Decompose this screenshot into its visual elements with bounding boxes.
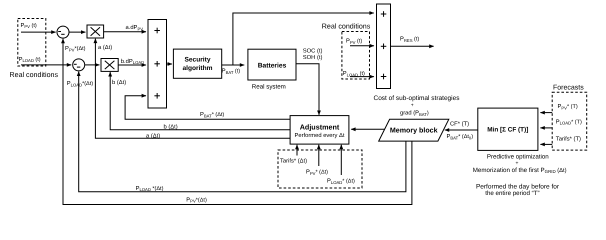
svg-text:PLOAD (t): PLOAD (t) (19, 57, 41, 63)
wire P_PV(t) to sum junction S1 (21, 31, 56, 33)
svg-text:grad (PBAT): grad (PBAT) (400, 110, 429, 117)
wire Tarifs* up to Adjustment (296, 145, 298, 156)
svg-text:Performed every Δt: Performed every Δt (295, 132, 345, 139)
block: Security algorithm (173, 49, 221, 78)
svg-text:a.dPPV: a.dPPV (126, 24, 144, 31)
wire M1 to summing block SUM1 (104, 31, 146, 33)
svg-text:Memory block: Memory block (390, 126, 438, 134)
svg-text:CF* (T): CF* (T) (450, 121, 469, 128)
dashed box: real conditions (right) (342, 32, 370, 80)
svg-text:PLOAD* (Δt): PLOAD* (Δt) (327, 179, 355, 185)
wire P_RES output (391, 45, 434, 47)
wire memory block down to S2 (P_LOAD*) (79, 72, 406, 192)
wire S1 to multiplier M1 (69, 31, 85, 33)
svg-text:PLOAD *(Δt): PLOAD *(Δt) (136, 186, 164, 192)
svg-text:+: + (411, 103, 414, 109)
sum junction S2 (73, 59, 85, 71)
block: Min [S CF (T)] (478, 108, 538, 150)
svg-text:PPV* (T): PPV* (T) (558, 104, 578, 110)
svg-text:Cost of sub-optimal strategies: Cost of sub-optimal strategies (374, 95, 461, 102)
svg-text:PLOAD* (T): PLOAD* (T) (556, 120, 582, 126)
wire P_PV*(T) to Min (540, 112, 552, 114)
wire S2 to multiplier M2 (85, 64, 100, 66)
wire P_PV(t) to cost block SUM2 (350, 45, 374, 47)
dashed box: real conditions (left) (18, 19, 46, 67)
svg-text:PBAT (t): PBAT (t) (222, 69, 241, 75)
svg-text:PLOAD*(Δt): PLOAD*(Δt) (67, 81, 93, 87)
svg-text:Batteries: Batteries (258, 62, 287, 69)
wire Adjustment to M1 (a) (95, 39, 290, 139)
svg-text:Tarifs* (Δt): Tarifs* (Δt) (280, 158, 307, 165)
svg-text:PPV (t): PPV (t) (346, 39, 362, 45)
cost summing block SUM2 (377, 4, 391, 89)
svg-text:Real conditions: Real conditions (322, 23, 371, 31)
wire P_PV* up to Adjustment (318, 145, 320, 166)
svg-text:b (Δt): b (Δt) (112, 79, 126, 86)
svg-text:PPV*(Δt): PPV*(Δt) (65, 46, 86, 52)
svg-text:Tarifs* (T): Tarifs* (T) (556, 136, 581, 143)
svg-text:a (Δt): a (Δt) (146, 133, 160, 140)
wire security to Batteries, P_BAT(t) (222, 64, 245, 66)
wire P_LOAD(t) to cost block SUM2 (350, 76, 374, 78)
svg-text:PBAT* (Δt0): PBAT* (Δt0) (447, 134, 474, 140)
svg-text:PRES (t): PRES (t) (400, 37, 419, 43)
svg-text:b (Δt): b (Δt) (164, 124, 178, 131)
svg-text:PPV*(Δt): PPV*(Δt) (186, 198, 207, 204)
svg-text:b.dPLOAD: b.dPLOAD (121, 58, 144, 65)
svg-text:SOC (t): SOC (t) (303, 48, 323, 55)
svg-text:Adjustment: Adjustment (300, 122, 340, 131)
multiplier M1 (87, 25, 104, 38)
svg-text:Predictive optimization: Predictive optimization (487, 154, 549, 161)
svg-text:+: + (515, 161, 518, 167)
svg-text:PPV (t): PPV (t) (21, 23, 37, 29)
svg-text:Forecasts: Forecasts (553, 85, 584, 92)
wire SUM1 to security algorithm (167, 63, 173, 65)
wire P_LOAD* up to Adjustment (340, 145, 342, 175)
wire Tarifs*(T) to Min (540, 143, 552, 145)
svg-text:the entire period “T”: the entire period “T” (485, 190, 539, 197)
svg-text:a (Δt): a (Δt) (98, 44, 112, 51)
svg-text:Memorization of the first PGRI: Memorization of the first PGRID (Δt) (473, 167, 567, 174)
wire M2 to summing block SUM1 (118, 64, 146, 66)
wire Adjustment to M2 (b) (110, 72, 290, 130)
wire memory block down to S1 (P_PV*) (63, 39, 412, 205)
svg-text:PBAT* (Δt): PBAT* (Δt) (200, 112, 224, 118)
dashed box: adjustment inputs (278, 150, 362, 188)
svg-text:Min [Σ CF (T)]: Min [Σ CF (T)] (487, 127, 528, 134)
dashed box: forecasts (552, 92, 587, 150)
wire Batteries SOC/SOH to Adjustment (296, 64, 319, 115)
wire P_LOAD(t) to sum junction S2 (21, 64, 71, 66)
svg-text:algorithm: algorithm (182, 65, 212, 72)
wire P_BAT(t) tap up to cost block SUM2 (233, 13, 374, 65)
svg-text:PPV* (Δt): PPV* (Δt) (306, 170, 328, 176)
summing block SUM1 (148, 20, 167, 109)
wire Adjustment to SUM1 (P_BAT*) (125, 96, 290, 120)
svg-text:Security: Security (184, 57, 210, 64)
wire P_LOAD*(T) to Min (540, 127, 552, 129)
block: Adjustment (290, 116, 349, 145)
svg-text:SOH (t): SOH (t) (303, 54, 323, 61)
wire memory block to Adjustment (351, 128, 384, 130)
wire Min to memory block (445, 129, 478, 131)
sum junction S1 (57, 26, 69, 38)
multiplier M2 (101, 59, 118, 72)
svg-text:Real system: Real system (252, 84, 286, 91)
svg-text:Real conditions: Real conditions (10, 71, 59, 79)
memory block (parallelogram) (379, 119, 449, 141)
block: Batteries (248, 49, 296, 80)
